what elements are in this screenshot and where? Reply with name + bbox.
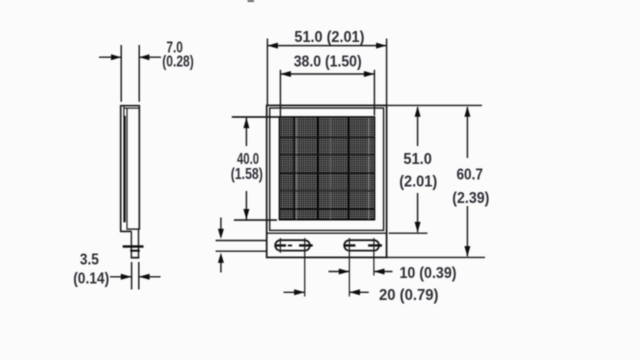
40.0 top extension line bbox=[232, 116, 280, 118]
dim line 51.0 top bbox=[267, 45, 386, 47]
38.0 left extension line bbox=[279, 70, 281, 117]
svg-text:3.5: 3.5 bbox=[80, 251, 99, 268]
side panel reflector top thin line bbox=[123, 107, 125, 117]
38.0 right arrowhead bbox=[364, 71, 375, 77]
40.0 dim line bottom segment bbox=[245, 191, 247, 220]
svg-text:38.0 (1.50): 38.0 (1.50) bbox=[294, 53, 362, 70]
3.5 right arrow with tail bbox=[139, 274, 161, 280]
right slot stadium outline bbox=[344, 240, 379, 250]
svg-text:(1.58): (1.58) bbox=[231, 166, 263, 183]
stud lower bar bbox=[130, 250, 140, 252]
51.0 right down arrowhead bbox=[415, 222, 421, 233]
side panel top edge bbox=[120, 105, 140, 107]
51.0 right dim line bottom segment bbox=[417, 193, 419, 232]
slot top extension line bbox=[216, 240, 267, 242]
3.5 extension line left bbox=[131, 262, 133, 290]
hatch dark row separators bbox=[280, 137, 375, 209]
side panel bottom step bbox=[120, 230, 132, 232]
stud left edge bbox=[130, 231, 132, 258]
dim 10 left arrow bbox=[329, 269, 350, 275]
svg-text:51.0 (2.01): 51.0 (2.01) bbox=[294, 29, 364, 46]
dim 7.0 left arrow bbox=[99, 54, 121, 60]
svg-text:20 (0.79): 20 (0.79) bbox=[379, 287, 439, 304]
side panel inner bottom edge bbox=[126, 228, 139, 230]
svg-text:(2.39): (2.39) bbox=[452, 190, 489, 207]
slot centerline dashes bbox=[275, 244, 382, 246]
top edge extension to right bbox=[387, 104, 482, 106]
60.7 dim line top segment bbox=[466, 107, 468, 158]
svg-text:(0.14): (0.14) bbox=[73, 271, 109, 288]
reflective hatch area bbox=[280, 117, 375, 220]
slot center vertical line B (left slot right, ext for 20) bbox=[304, 238, 306, 297]
dim 10 right arrow bbox=[374, 269, 393, 275]
60.7 dim line bottom segment bbox=[466, 206, 468, 256]
side panel inner top edge bbox=[124, 107, 140, 109]
51.0 top left arrowhead bbox=[267, 43, 278, 49]
40.0 bottom extension line bbox=[234, 219, 277, 221]
slot bottom extension line bbox=[216, 250, 267, 252]
side panel outer left edge bbox=[120, 105, 122, 232]
svg-text:(0.28): (0.28) bbox=[162, 54, 194, 71]
dim 20 left arrow bbox=[284, 289, 305, 295]
dim line 38.0 bbox=[280, 73, 374, 75]
40.0 dim line top segment bbox=[245, 117, 247, 146]
top edge stray mark bbox=[248, 0, 255, 2]
small dim down arrow bbox=[218, 218, 224, 240]
38.0 right extension line bbox=[373, 70, 375, 116]
slot center vertical line D (right slot right, ext for 10) bbox=[373, 238, 375, 276]
side panel inner left edge bbox=[126, 108, 128, 230]
left slot stadium outline bbox=[275, 240, 310, 250]
51.0 top right extension line bbox=[386, 39, 388, 105]
stud right edge bbox=[138, 229, 140, 258]
dim 20 right arrow bbox=[349, 289, 368, 295]
hatch border bbox=[280, 117, 375, 220]
38.0 left arrowhead bbox=[280, 71, 291, 77]
svg-text:(2.01): (2.01) bbox=[399, 173, 437, 190]
front tab separation line bbox=[267, 232, 387, 234]
svg-text:60.7: 60.7 bbox=[456, 166, 483, 183]
40.0 up arrowhead bbox=[243, 118, 249, 129]
bottom edge extension to right bbox=[387, 256, 485, 258]
40.0 down arrowhead bbox=[243, 209, 249, 220]
60.7 up arrowhead bbox=[464, 106, 470, 117]
side view extension line right (7.0) bbox=[138, 45, 140, 102]
3.5 left arrow with leader bbox=[110, 274, 132, 280]
front inner bezel rectangle bbox=[270, 108, 384, 230]
dim 7.0 right arrow bbox=[139, 54, 161, 60]
51.0 top right arrowhead bbox=[376, 43, 387, 49]
51.0 right dim line top segment bbox=[417, 107, 419, 146]
side view extension line left (7.0) bbox=[120, 45, 122, 102]
front outer rectangle bbox=[267, 105, 387, 257]
small dim up arrow bbox=[218, 253, 224, 273]
51.0 right bottom extension line bbox=[389, 232, 428, 234]
stud flange bar bbox=[123, 245, 144, 247]
slot center vertical line A (left slot left) bbox=[279, 238, 281, 253]
51.0 top left extension line bbox=[266, 39, 268, 105]
svg-text:10 (0.39): 10 (0.39) bbox=[400, 265, 457, 282]
hatch dark column separators bbox=[294, 117, 348, 220]
3.5 extension line right bbox=[138, 262, 140, 290]
side panel reflector strip (thick) bbox=[123, 116, 125, 223]
svg-text:51.0: 51.0 bbox=[403, 151, 432, 168]
51.0 right up arrowhead bbox=[415, 106, 421, 117]
60.7 down arrowhead bbox=[464, 246, 470, 257]
slot center vertical line C (right slot left, ext for 10/20) bbox=[348, 238, 350, 297]
side panel outer right edge bbox=[138, 105, 140, 230]
hatch bright vertical lines bbox=[297, 118, 369, 219]
stud bottom edge bbox=[131, 257, 140, 259]
